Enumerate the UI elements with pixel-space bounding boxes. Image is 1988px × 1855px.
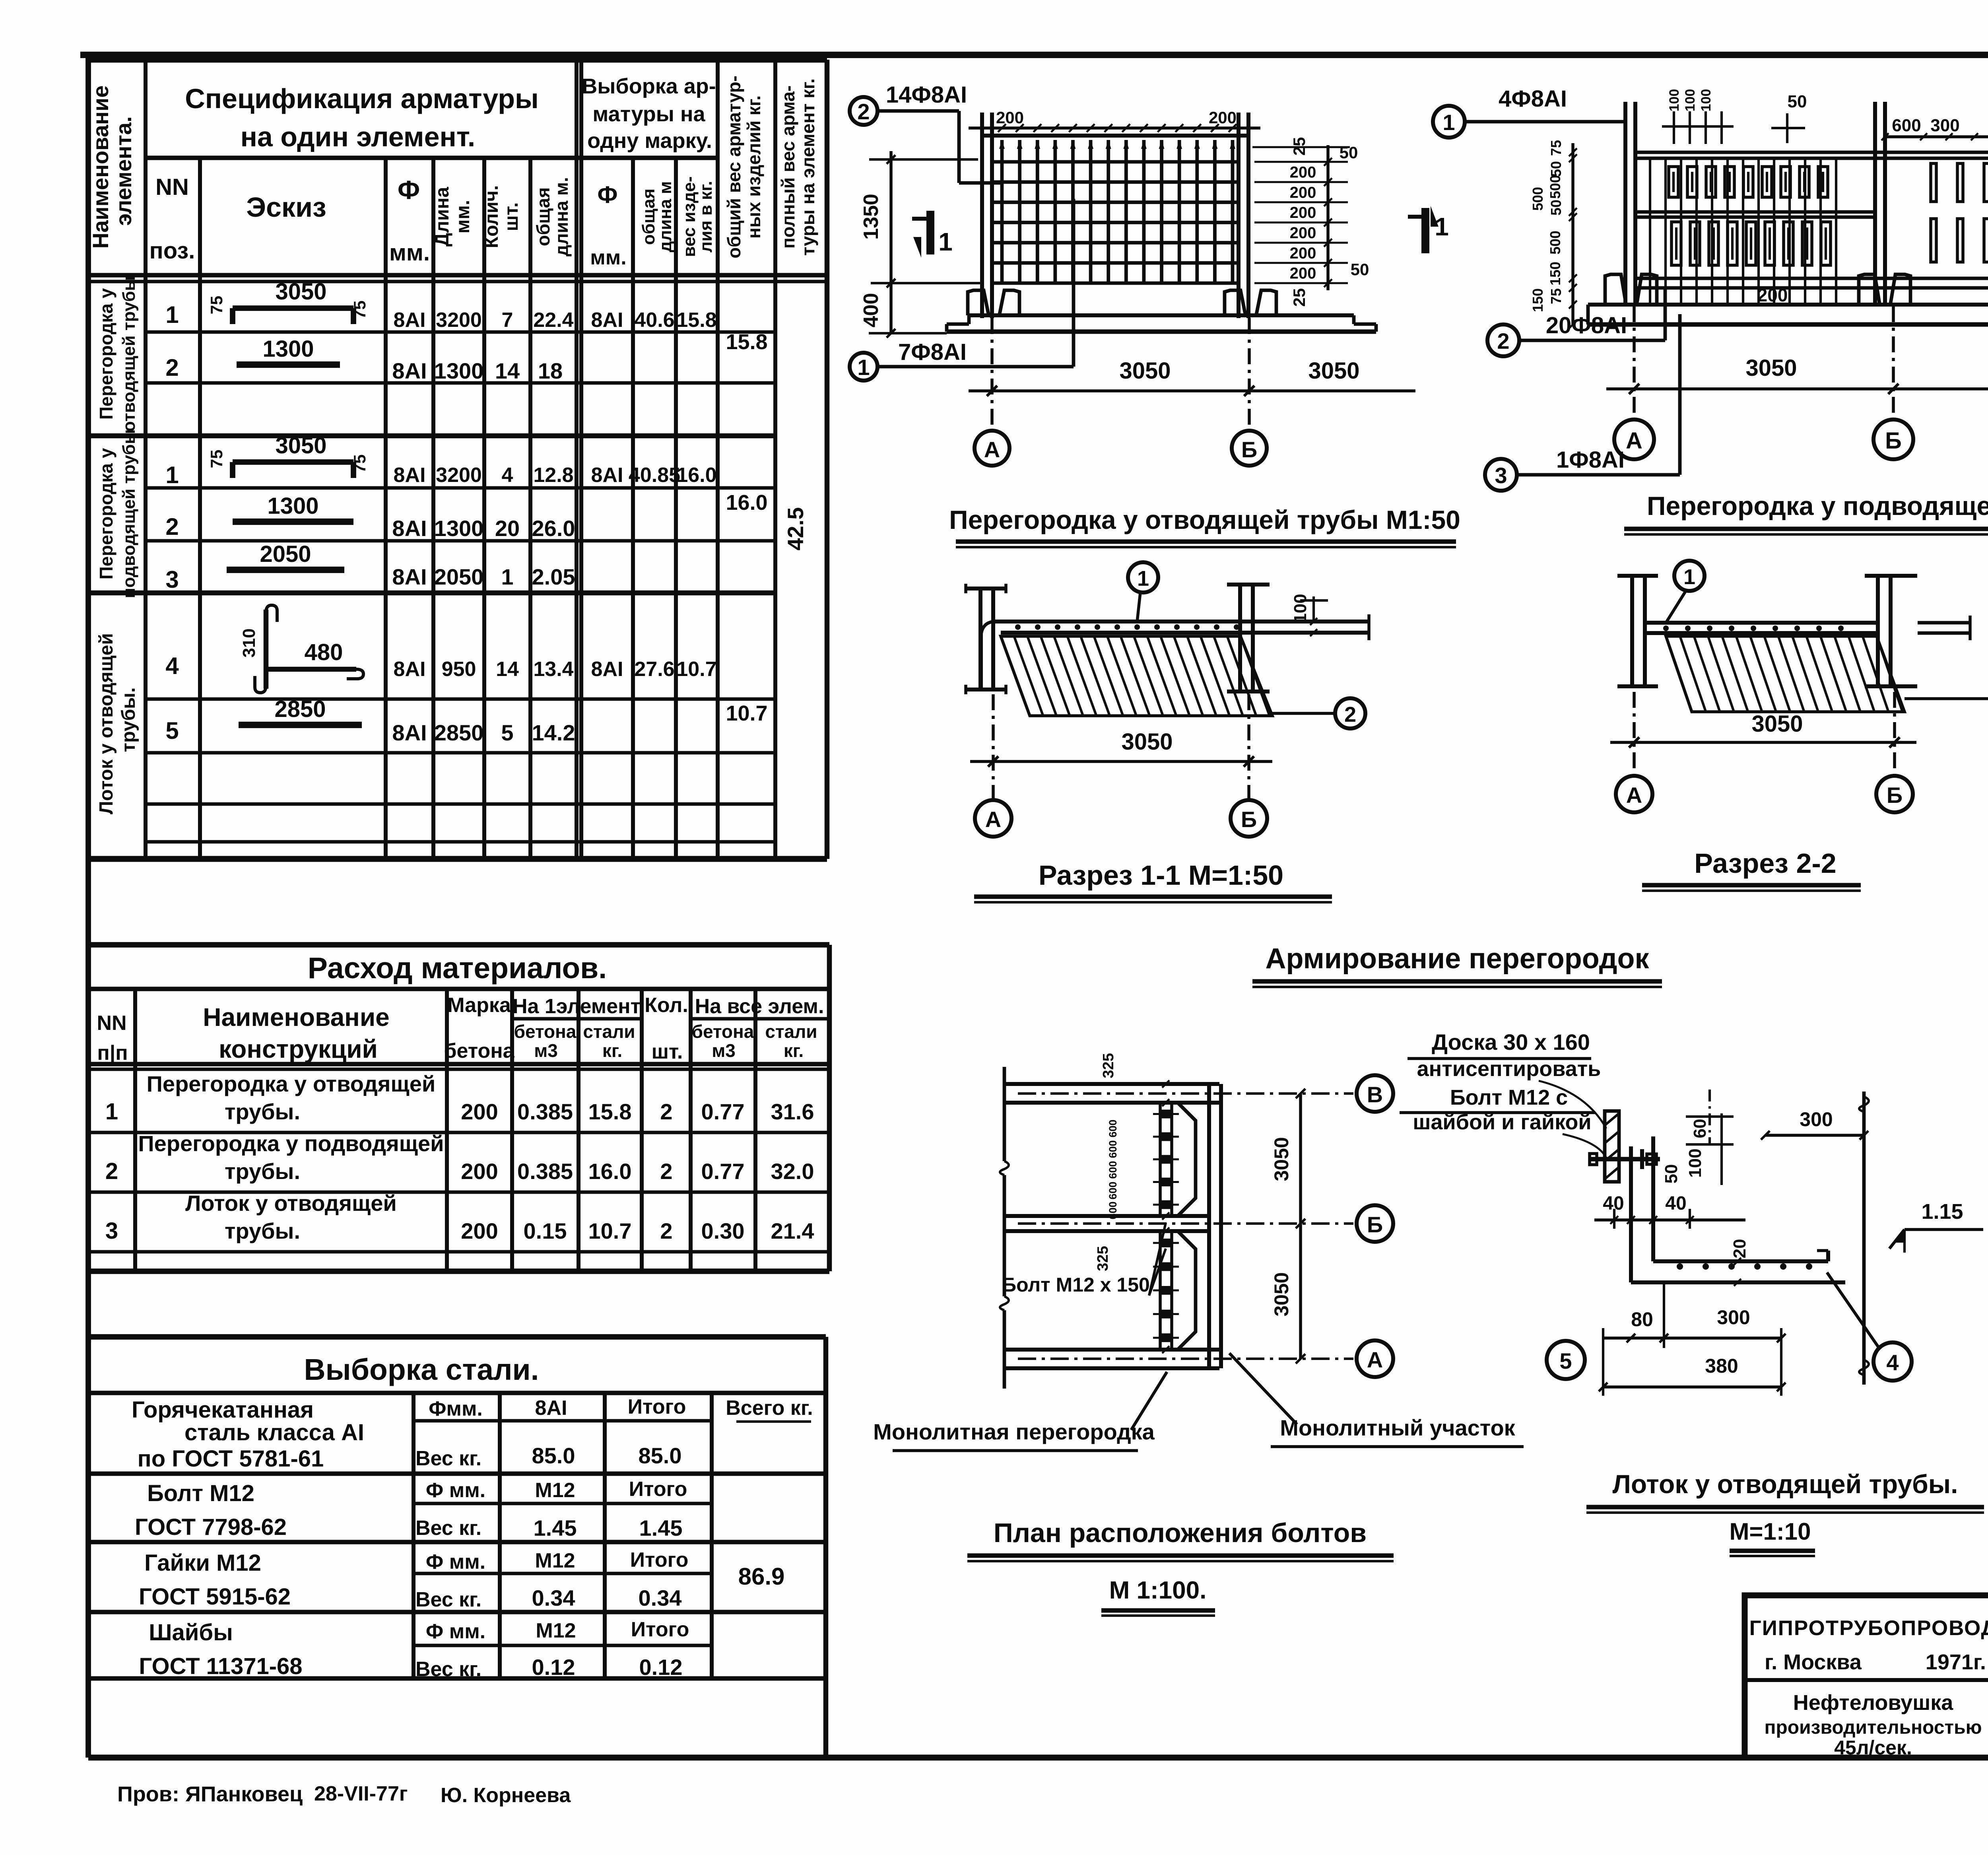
svg-text:1: 1	[105, 1099, 118, 1125]
svg-text:трубы.: трубы.	[225, 1159, 300, 1184]
svg-text:0.30: 0.30	[701, 1218, 745, 1243]
svg-text:8АІ: 8АІ	[591, 309, 623, 332]
svg-text:ГОСТ 7798-62: ГОСТ 7798-62	[135, 1514, 287, 1540]
svg-text:Ф: Ф	[597, 181, 617, 208]
svg-text:шт.: шт.	[652, 1040, 683, 1063]
svg-text:2: 2	[165, 354, 179, 381]
svg-text:5: 5	[1559, 1348, 1572, 1373]
svg-text:20: 20	[1730, 1239, 1749, 1259]
svg-text:2: 2	[660, 1218, 672, 1243]
svg-text:400: 400	[860, 293, 883, 328]
svg-text:Пров: ЯПанковец: Пров: ЯПанковец	[117, 1782, 303, 1806]
svg-text:Перегородка у подводящей труб: Перегородка у подводящей трубы М1:50	[1647, 491, 1988, 521]
svg-text:300: 300	[1717, 1306, 1750, 1329]
svg-text:полный вес арма-: полный вес арма-	[778, 85, 798, 249]
svg-text:2: 2	[660, 1159, 672, 1184]
svg-text:Перегородка у подводящей: Перегородка у подводящей	[138, 1131, 444, 1156]
svg-text:ГОСТ 11371-68: ГОСТ 11371-68	[139, 1653, 302, 1679]
svg-text:7: 7	[502, 309, 513, 332]
svg-text:ных изделий кг.: ных изделий кг.	[744, 95, 764, 239]
svg-text:общий вес арматур-: общий вес арматур-	[724, 76, 744, 258]
svg-text:1.45: 1.45	[639, 1515, 683, 1540]
svg-text:Выборка стали.: Выборка стали.	[304, 1353, 539, 1386]
svg-text:200: 200	[1209, 108, 1237, 127]
svg-text:Наименование: Наименование	[88, 85, 113, 249]
svg-text:Вес кг.: Вес кг.	[415, 1447, 481, 1470]
svg-text:NN: NN	[97, 1012, 126, 1035]
svg-text:45л/сек.: 45л/сек.	[1834, 1737, 1912, 1759]
svg-text:200: 200	[1757, 285, 1788, 305]
svg-text:м3: м3	[712, 1040, 736, 1061]
svg-text:8АІ: 8АІ	[392, 358, 427, 383]
svg-text:лия в кг.: лия в кг.	[696, 181, 716, 253]
svg-text:200: 200	[1290, 184, 1316, 201]
svg-text:500: 500	[1547, 231, 1563, 254]
svg-text:50: 50	[1662, 1164, 1681, 1184]
svg-text:25: 25	[1290, 288, 1309, 307]
svg-text:2: 2	[105, 1158, 118, 1184]
svg-text:Б: Б	[1885, 428, 1902, 454]
svg-text:40.85: 40.85	[629, 464, 680, 487]
svg-text:150: 150	[1547, 262, 1563, 286]
svg-text:75: 75	[1548, 140, 1564, 156]
svg-text:4Ф8АІ: 4Ф8АІ	[1499, 86, 1567, 112]
svg-text:2: 2	[1344, 703, 1356, 726]
svg-text:NN: NN	[155, 174, 189, 200]
svg-text:Эскиз: Эскиз	[246, 192, 326, 223]
svg-text:кг.: кг.	[784, 1040, 804, 1061]
svg-text:г. Москва: г. Москва	[1765, 1650, 1862, 1674]
svg-text:22.4: 22.4	[533, 309, 573, 332]
svg-text:325: 325	[1100, 1053, 1117, 1078]
svg-text:8АІ: 8АІ	[394, 309, 426, 332]
svg-text:3050: 3050	[1308, 358, 1359, 384]
svg-text:42.5: 42.5	[783, 507, 808, 551]
svg-text:2050: 2050	[434, 564, 484, 589]
svg-text:8АІ: 8АІ	[392, 516, 427, 541]
svg-text:4: 4	[1886, 1350, 1899, 1375]
svg-text:75: 75	[350, 455, 369, 473]
svg-text:3200: 3200	[436, 309, 482, 332]
svg-text:150: 150	[1530, 288, 1546, 312]
svg-text:300: 300	[1800, 1108, 1833, 1130]
svg-text:50: 50	[1548, 200, 1564, 216]
svg-text:26.0: 26.0	[532, 516, 575, 541]
svg-text:Б: Б	[1887, 783, 1903, 808]
svg-text:стали: стали	[583, 1021, 635, 1042]
svg-text:Ф: Ф	[398, 175, 420, 204]
svg-text:на один элемент.: на один элемент.	[241, 121, 476, 152]
svg-text:Итого: Итого	[629, 1478, 687, 1501]
svg-text:Перегородка у: Перегородка у	[96, 448, 116, 579]
svg-text:подводящей трубы: подводящей трубы	[119, 429, 139, 598]
svg-text:600: 600	[1107, 1161, 1119, 1179]
svg-text:12.8: 12.8	[533, 464, 573, 487]
svg-text:шайбой и гайкой: шайбой и гайкой	[1413, 1110, 1591, 1134]
svg-text:1Ф8АІ: 1Ф8АІ	[1556, 447, 1625, 473]
svg-text:200: 200	[1290, 224, 1316, 242]
svg-text:325: 325	[1095, 1246, 1111, 1271]
svg-text:0.77: 0.77	[701, 1099, 745, 1124]
svg-text:15.8: 15.8	[588, 1099, 632, 1124]
svg-text:20: 20	[495, 516, 520, 541]
svg-text:21.4: 21.4	[771, 1218, 814, 1243]
svg-text:Б: Б	[1367, 1212, 1383, 1237]
svg-text:п|п: п|п	[97, 1041, 128, 1064]
svg-text:Разрез 2-2: Разрез 2-2	[1694, 848, 1836, 879]
svg-text:Ф мм.: Ф мм.	[426, 1479, 485, 1502]
svg-text:Разрез 1-1 М=1:50: Разрез 1-1 М=1:50	[1039, 860, 1283, 891]
svg-text:25: 25	[1290, 137, 1309, 156]
svg-text:600: 600	[1107, 1181, 1119, 1199]
svg-text:2.05: 2.05	[532, 564, 575, 589]
svg-text:поз.: поз.	[149, 238, 195, 264]
svg-text:Горячекатанная: Горячекатанная	[132, 1397, 314, 1423]
svg-text:2: 2	[857, 99, 870, 124]
svg-text:1350: 1350	[860, 194, 883, 240]
svg-text:16.0: 16.0	[676, 464, 716, 487]
svg-text:длина м.: длина м.	[551, 177, 572, 256]
svg-text:1300: 1300	[434, 516, 484, 541]
svg-text:8АІ: 8АІ	[392, 564, 427, 589]
svg-text:75: 75	[350, 301, 369, 319]
svg-text:отводящей трубы: отводящей трубы	[119, 276, 139, 432]
svg-text:10.7: 10.7	[676, 658, 716, 681]
svg-text:1: 1	[1435, 212, 1449, 241]
svg-text:Вес кг.: Вес кг.	[415, 1588, 481, 1611]
svg-text:Б: Б	[1241, 807, 1257, 832]
svg-text:шт.: шт.	[501, 202, 522, 231]
svg-text:Колич.: Колич.	[481, 185, 502, 249]
svg-text:75: 75	[207, 450, 226, 468]
svg-text:50: 50	[1351, 260, 1369, 279]
svg-text:4: 4	[165, 653, 179, 679]
svg-text:3: 3	[165, 566, 179, 593]
svg-text:3: 3	[1495, 463, 1507, 488]
svg-text:14: 14	[496, 658, 519, 681]
svg-text:28-VII-77г: 28-VII-77г	[314, 1782, 408, 1805]
svg-text:бетона: бетона	[692, 1021, 754, 1042]
svg-text:2: 2	[1497, 328, 1509, 354]
svg-text:Армирование перегородок: Армирование перегородок	[1266, 943, 1650, 975]
svg-text:1300: 1300	[262, 336, 314, 362]
svg-text:1: 1	[1137, 567, 1149, 590]
svg-text:На 1элемент: На 1элемент	[513, 995, 641, 1018]
svg-text:трубы.: трубы.	[225, 1218, 300, 1243]
svg-text:2: 2	[165, 513, 179, 540]
svg-text:ГИПРОТРУБОПРОВОД: ГИПРОТРУБОПРОВОД	[1749, 1616, 1988, 1640]
svg-text:по ГОСТ 5781-61: по ГОСТ 5781-61	[138, 1446, 324, 1472]
svg-text:М12: М12	[536, 1619, 576, 1642]
svg-text:Лоток у отводящей: Лоток у отводящей	[96, 633, 117, 814]
svg-text:480: 480	[305, 639, 343, 665]
svg-text:5: 5	[165, 717, 179, 744]
svg-text:200: 200	[1290, 265, 1316, 282]
svg-text:М12: М12	[535, 1479, 575, 1502]
svg-text:Итого: Итого	[631, 1618, 689, 1641]
svg-text:Марка: Марка	[447, 994, 511, 1017]
svg-text:Доска 30 х 160: Доска 30 х 160	[1432, 1029, 1590, 1055]
svg-text:200: 200	[461, 1218, 498, 1243]
svg-text:2: 2	[660, 1099, 672, 1124]
svg-text:М=1:10: М=1:10	[1729, 1518, 1811, 1545]
svg-text:8АІ: 8АІ	[394, 464, 426, 487]
svg-text:1971г.: 1971г.	[1926, 1650, 1986, 1674]
svg-text:2850: 2850	[434, 720, 484, 745]
svg-text:ГОСТ 5915-62: ГОСТ 5915-62	[139, 1584, 291, 1610]
svg-text:0.77: 0.77	[701, 1159, 745, 1184]
svg-text:8АІ: 8АІ	[394, 658, 426, 681]
svg-text:М12: М12	[535, 1549, 575, 1572]
svg-text:бетона: бетона	[514, 1021, 577, 1042]
svg-text:длина м: длина м	[656, 181, 675, 253]
svg-text:М 1:100.: М 1:100.	[1109, 1577, 1207, 1604]
svg-text:элемента.: элемента.	[111, 116, 136, 225]
svg-text:200: 200	[996, 108, 1024, 127]
svg-text:85.0: 85.0	[639, 1443, 682, 1468]
svg-text:600: 600	[1892, 116, 1921, 135]
svg-text:производительностью: производительностью	[1764, 1717, 1982, 1738]
svg-text:200: 200	[1290, 245, 1316, 262]
svg-text:50: 50	[1340, 143, 1358, 162]
svg-text:310: 310	[239, 628, 259, 657]
svg-text:0.15: 0.15	[524, 1218, 567, 1243]
svg-text:1.45: 1.45	[534, 1515, 577, 1540]
svg-text:Выборка ар-: Выборка ар-	[582, 74, 716, 98]
svg-text:200: 200	[461, 1099, 498, 1124]
svg-text:3050: 3050	[1119, 358, 1171, 384]
svg-text:Вес кг.: Вес кг.	[415, 1658, 481, 1681]
svg-text:0.34: 0.34	[639, 1585, 682, 1610]
svg-text:А: А	[985, 807, 1001, 832]
svg-text:На все элем.: На все элем.	[695, 995, 824, 1018]
svg-text:Б: Б	[1241, 437, 1257, 462]
svg-text:3050: 3050	[1270, 1272, 1293, 1316]
svg-text:трубы.: трубы.	[225, 1099, 300, 1124]
svg-text:600: 600	[1107, 1119, 1119, 1137]
svg-text:Вес кг.: Вес кг.	[415, 1517, 481, 1540]
svg-text:1: 1	[938, 227, 953, 256]
svg-text:0.385: 0.385	[517, 1159, 573, 1184]
svg-text:Наименование: Наименование	[203, 1003, 390, 1031]
svg-text:мм.: мм.	[452, 200, 474, 233]
svg-text:10.7: 10.7	[726, 701, 767, 725]
svg-text:3050: 3050	[275, 433, 326, 458]
svg-text:1: 1	[501, 564, 513, 589]
svg-text:м3: м3	[534, 1040, 558, 1061]
svg-text:75: 75	[1548, 288, 1564, 304]
svg-text:мм.: мм.	[389, 240, 430, 266]
svg-text:600: 600	[1107, 1140, 1119, 1158]
svg-text:14Ф8АІ: 14Ф8АІ	[886, 82, 967, 108]
svg-text:Спецификация арматуры: Спецификация арматуры	[185, 83, 539, 114]
svg-text:75: 75	[207, 296, 226, 315]
svg-text:3050: 3050	[1745, 355, 1797, 381]
svg-text:27.6: 27.6	[634, 658, 674, 681]
svg-text:3200: 3200	[436, 464, 482, 487]
svg-text:18: 18	[538, 358, 563, 383]
svg-text:Ю. Корнеева: Ю. Корнеева	[441, 1784, 571, 1807]
svg-text:бетона: бетона	[444, 1039, 514, 1062]
svg-text:40: 40	[1665, 1193, 1686, 1214]
svg-text:матуры на: матуры на	[592, 102, 705, 126]
svg-text:3050: 3050	[1751, 711, 1803, 737]
svg-text:Монолитная перегородка: Монолитная перегородка	[873, 1419, 1155, 1444]
svg-text:50: 50	[1788, 92, 1807, 111]
svg-text:1: 1	[1442, 110, 1455, 135]
svg-text:85.0: 85.0	[532, 1443, 575, 1468]
svg-text:1: 1	[857, 355, 870, 380]
svg-text:0.34: 0.34	[532, 1585, 575, 1610]
svg-text:40.6: 40.6	[634, 309, 674, 332]
svg-text:10.7: 10.7	[588, 1218, 632, 1243]
svg-text:3050: 3050	[275, 279, 326, 305]
svg-text:500: 500	[1530, 187, 1546, 211]
svg-text:1300: 1300	[267, 493, 318, 519]
svg-text:14.2: 14.2	[532, 720, 575, 745]
svg-text:Итого: Итого	[628, 1395, 686, 1418]
svg-text:15.8: 15.8	[726, 330, 767, 354]
svg-text:86.9: 86.9	[738, 1563, 785, 1590]
svg-text:А: А	[1367, 1347, 1383, 1372]
svg-text:1: 1	[1683, 565, 1695, 589]
svg-text:общая: общая	[533, 187, 553, 246]
svg-text:100: 100	[1683, 89, 1698, 112]
svg-text:600: 600	[1107, 1201, 1119, 1219]
svg-text:100: 100	[1685, 1148, 1705, 1177]
svg-text:Болт М12: Болт М12	[147, 1480, 254, 1506]
svg-text:50: 50	[1548, 161, 1564, 177]
svg-text:сталь класса АІ: сталь класса АІ	[184, 1420, 364, 1445]
svg-text:Итого: Итого	[630, 1548, 689, 1571]
svg-text:1.15: 1.15	[1921, 1200, 1963, 1224]
svg-text:0.12: 0.12	[532, 1655, 575, 1680]
svg-text:15.8: 15.8	[676, 309, 716, 332]
svg-text:8АІ: 8АІ	[591, 464, 623, 487]
svg-text:Монолитный участок: Монолитный участок	[1280, 1415, 1515, 1440]
svg-text:1: 1	[165, 301, 179, 328]
svg-text:Болт М12 х 150: Болт М12 х 150	[1002, 1274, 1150, 1296]
svg-text:100: 100	[1699, 89, 1714, 112]
svg-text:80: 80	[1631, 1308, 1653, 1331]
svg-text:8АІ: 8АІ	[591, 658, 623, 681]
svg-text:Лоток у отводящей трубы.: Лоток у отводящей трубы.	[1613, 1469, 1958, 1499]
svg-text:А: А	[1626, 783, 1642, 808]
svg-text:14: 14	[495, 358, 520, 383]
svg-text:антисептировать: антисептировать	[1417, 1057, 1601, 1081]
svg-text:0.12: 0.12	[639, 1655, 683, 1680]
svg-text:трубы.: трубы.	[118, 688, 139, 752]
svg-text:3050: 3050	[1270, 1137, 1293, 1181]
svg-text:8АІ: 8АІ	[392, 720, 427, 745]
svg-text:8АІ: 8АІ	[535, 1397, 567, 1420]
svg-text:20Ф8АІ: 20Ф8АІ	[1546, 313, 1627, 338]
svg-text:2050: 2050	[260, 541, 311, 567]
svg-text:Ф мм.: Ф мм.	[426, 1550, 485, 1573]
svg-text:32.0: 32.0	[771, 1159, 814, 1184]
svg-text:16.0: 16.0	[726, 491, 767, 515]
svg-text:0.385: 0.385	[517, 1099, 573, 1124]
svg-text:Длина: Длина	[432, 187, 453, 247]
svg-text:500: 500	[1547, 175, 1563, 199]
svg-text:Расход материалов.: Расход материалов.	[308, 951, 607, 985]
svg-text:7Ф8АІ: 7Ф8АІ	[898, 339, 967, 365]
svg-text:100: 100	[1291, 594, 1310, 623]
svg-text:Шайбы: Шайбы	[149, 1620, 233, 1645]
svg-text:380: 380	[1705, 1355, 1738, 1377]
svg-text:2850: 2850	[274, 696, 326, 722]
svg-text:60: 60	[1690, 1119, 1710, 1138]
svg-text:кг.: кг.	[602, 1040, 622, 1061]
svg-text:Кол.: Кол.	[645, 994, 688, 1017]
svg-text:5: 5	[501, 720, 513, 745]
svg-text:200: 200	[1290, 204, 1316, 221]
svg-text:3050: 3050	[1121, 729, 1173, 755]
svg-text:1300: 1300	[434, 358, 484, 383]
svg-text:4: 4	[502, 464, 513, 487]
svg-text:100: 100	[1667, 89, 1682, 112]
svg-text:туры на элемент кг.: туры на элемент кг.	[798, 78, 818, 256]
svg-text:31.6: 31.6	[771, 1099, 814, 1124]
svg-text:3: 3	[105, 1218, 118, 1244]
svg-text:300: 300	[1930, 116, 1959, 135]
svg-text:Болт М12 с: Болт М12 с	[1450, 1086, 1568, 1109]
svg-text:План расположения болтов: План расположения болтов	[994, 1518, 1367, 1548]
svg-text:1: 1	[165, 462, 179, 488]
svg-text:Ф мм.: Ф мм.	[426, 1620, 485, 1643]
svg-text:А: А	[1626, 428, 1642, 454]
svg-text:стали: стали	[765, 1021, 817, 1042]
svg-text:одну марку.: одну марку.	[587, 129, 712, 153]
svg-text:конструкций: конструкций	[219, 1035, 378, 1063]
svg-text:13.4: 13.4	[533, 658, 573, 681]
svg-text:Перегородка у: Перегородка у	[96, 288, 116, 420]
svg-text:200: 200	[1290, 163, 1316, 181]
svg-text:Фмм.: Фмм.	[429, 1397, 483, 1420]
svg-text:950: 950	[442, 658, 476, 681]
svg-text:16.0: 16.0	[588, 1159, 632, 1184]
svg-text:Лоток у отводящей: Лоток у отводящей	[185, 1191, 397, 1216]
svg-text:В: В	[1367, 1082, 1383, 1107]
svg-text:200: 200	[461, 1159, 498, 1184]
svg-text:мм.: мм.	[590, 246, 626, 269]
svg-text:Гайки М12: Гайки М12	[144, 1550, 261, 1576]
svg-text:Перегородка у отводящей: Перегородка у отводящей	[147, 1071, 436, 1096]
svg-text:Перегородка у отводящей трубы: Перегородка у отводящей трубы М1:50	[949, 505, 1460, 534]
svg-text:Нефтеловушка: Нефтеловушка	[1793, 1691, 1954, 1715]
svg-text:Всего кг.: Всего кг.	[726, 1397, 813, 1420]
svg-text:А: А	[984, 437, 1000, 462]
